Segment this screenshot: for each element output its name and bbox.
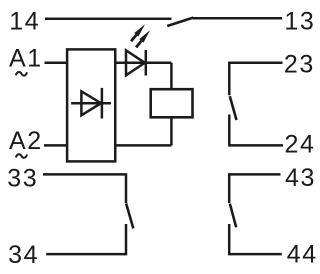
LED arrow 2 bbox=[136, 30, 150, 47]
electronics box U1 bbox=[67, 49, 115, 161]
AC tilde A1 bbox=[16, 72, 27, 76]
contact blade 33-34 bbox=[126, 204, 133, 229]
svg-text:14: 14 bbox=[9, 8, 40, 36]
diode D1 inside box bbox=[71, 102, 111, 105]
wire 43 bbox=[229, 174, 280, 203]
wire A2 to box bbox=[44, 144, 67, 147]
svg-text:23: 23 bbox=[284, 51, 315, 79]
wire 14 to contact bbox=[45, 18, 171, 21]
LED arrow 1 bbox=[131, 24, 145, 41]
svg-text:13: 13 bbox=[284, 8, 315, 36]
wire contact to 13 bbox=[193, 17, 282, 20]
svg-text:A1: A1 bbox=[9, 45, 43, 73]
svg-text:24: 24 bbox=[285, 131, 316, 159]
contact blade 13-14 bbox=[167, 18, 193, 26]
svg-text:44: 44 bbox=[287, 241, 318, 269]
relay coil K1 bbox=[151, 89, 193, 117]
wire 33 bbox=[43, 174, 126, 203]
wire coil down bbox=[170, 117, 173, 145]
contact blade 23-24 bbox=[230, 96, 237, 120]
svg-text:33: 33 bbox=[7, 164, 38, 192]
svg-text:A2: A2 bbox=[9, 127, 43, 155]
svg-text:43: 43 bbox=[285, 164, 316, 192]
wire box to LED bbox=[115, 62, 171, 65]
wire 34 bbox=[46, 224, 126, 254]
wire 44 bbox=[229, 224, 282, 254]
wire 24 bbox=[229, 115, 283, 146]
wire A1 to box bbox=[45, 62, 68, 65]
wire 23 bbox=[229, 63, 282, 96]
wire coil to box bbox=[115, 144, 171, 147]
svg-text:34: 34 bbox=[8, 241, 39, 269]
LED D2 bbox=[126, 50, 145, 75]
AC tilde A2 bbox=[16, 154, 27, 158]
wire LED to coil bbox=[170, 63, 173, 89]
contact blade 43-44 bbox=[230, 204, 236, 228]
